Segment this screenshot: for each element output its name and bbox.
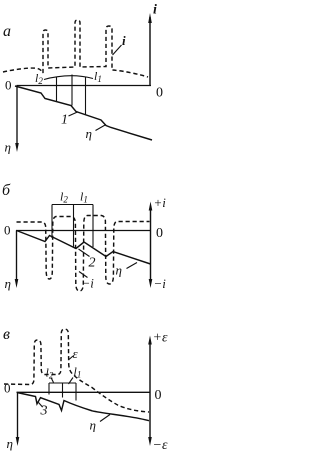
arrowhead i axis (panel a) [148,13,152,23]
horizontal axis (panel v) [17,391,151,393]
arrowhead +e axis (panel v) [148,336,152,345]
svg-text:η: η [7,436,13,451]
svg-text:i: i [153,3,157,18]
arrowhead eta axis (panel v) [16,437,20,446]
svg-text:l2: l2 [46,366,54,381]
interval marker top line (panel v) [49,382,76,384]
polarization sawtooth eta (panel b) [17,231,151,265]
svg-text:l2: l2 [60,190,68,205]
svg-text:η: η [116,263,122,278]
svg-text:−ε: −ε [153,438,168,453]
svg-text:0: 0 [155,388,162,403]
svg-text:б: б [2,182,11,199]
polarization curve eta (panel a) [15,86,152,140]
svg-text:а: а [3,23,11,40]
svg-text:+i: +i [154,195,167,210]
reversing current curve i dashed (panel b) [17,216,150,292]
svg-text:η: η [90,418,96,433]
interval marker line x=85.5 (panel a) [85,77,87,115]
interval marker line x=76 (panel v) [75,383,77,401]
svg-text:0: 0 [156,86,163,101]
leader line for label i (panel a) [113,45,122,55]
axis eta vertical (panel a, left) [16,86,18,147]
arrowhead eta axis (panel b) [15,279,19,288]
svg-text:0: 0 [4,381,11,396]
svg-text:в: в [3,326,10,343]
svg-text:2: 2 [89,256,96,271]
svg-text:1: 1 [61,113,68,128]
leader line for label 1 (panel a) [69,112,79,116]
arrowhead -i axis (panel b) [149,279,153,288]
arrowhead -e axis (panel v) [148,437,152,446]
interval marker line x=62.5 (panel v) [62,383,64,398]
svg-text:0: 0 [156,226,163,241]
horizontal axis (panel a) [17,85,152,87]
svg-text:ε: ε [73,346,79,361]
polarization curve eta (panel v) [17,393,149,421]
axis eta vertical (panel v, left) [17,392,19,440]
leader line for l2 (panel v) [51,378,54,383]
current curve i dashed (panel a) [3,20,148,77]
svg-text:+ε: +ε [153,331,168,346]
interval marker line x=72 (panel a) [71,75,73,106]
dimension line x=73.5 (panel b) [73,205,75,247]
axis eta vertical (panel b, left) [16,231,18,283]
pulse current with decay dashed (panel v) [4,329,149,412]
svg-text:−i: −i [154,276,167,291]
leader line for label 2 (panel b) [79,249,90,257]
interval marker line x=56.5 (panel a) [56,77,58,102]
leader line for epsilon label (panel v) [69,356,73,360]
svg-text:0: 0 [5,78,12,93]
leader line for eta label (panel v) [100,415,110,422]
svg-text:η: η [5,276,11,291]
interval marker arc (panel a) [44,76,93,80]
axis +e/-e vertical (panel v, right) [149,340,151,441]
leader line for label 3 (panel v) [39,403,43,408]
axis i vertical (panel a, right) [149,17,151,86]
leader line for eta label (panel b) [127,263,138,269]
svg-text:η: η [5,140,11,155]
dimension line x=52 (panel b) [51,205,53,239]
svg-text:η: η [86,126,92,141]
interval marker line x=49 (panel v) [48,383,50,395]
arrowhead +i axis (panel b) [149,202,153,211]
svg-text:l1: l1 [94,69,102,84]
leader line for -i label (panel b) [79,272,88,278]
leader line for eta label (panel a) [96,125,107,131]
arrowhead eta axis (panel a) [15,143,19,152]
dimension bracket line (panel b) [52,204,93,206]
horizontal axis (panel b) [16,230,151,232]
dimension line x=93 (panel b) [92,205,94,248]
svg-text:−i: −i [82,276,95,291]
svg-text:0: 0 [4,223,11,238]
svg-text:l1: l1 [80,190,88,205]
svg-text:l1: l1 [74,365,82,380]
svg-text:l2: l2 [35,71,43,86]
svg-text:i: i [122,33,126,48]
axis +i/-i vertical (panel b, right) [150,206,152,283]
leader line for l1 (panel v) [69,378,74,385]
